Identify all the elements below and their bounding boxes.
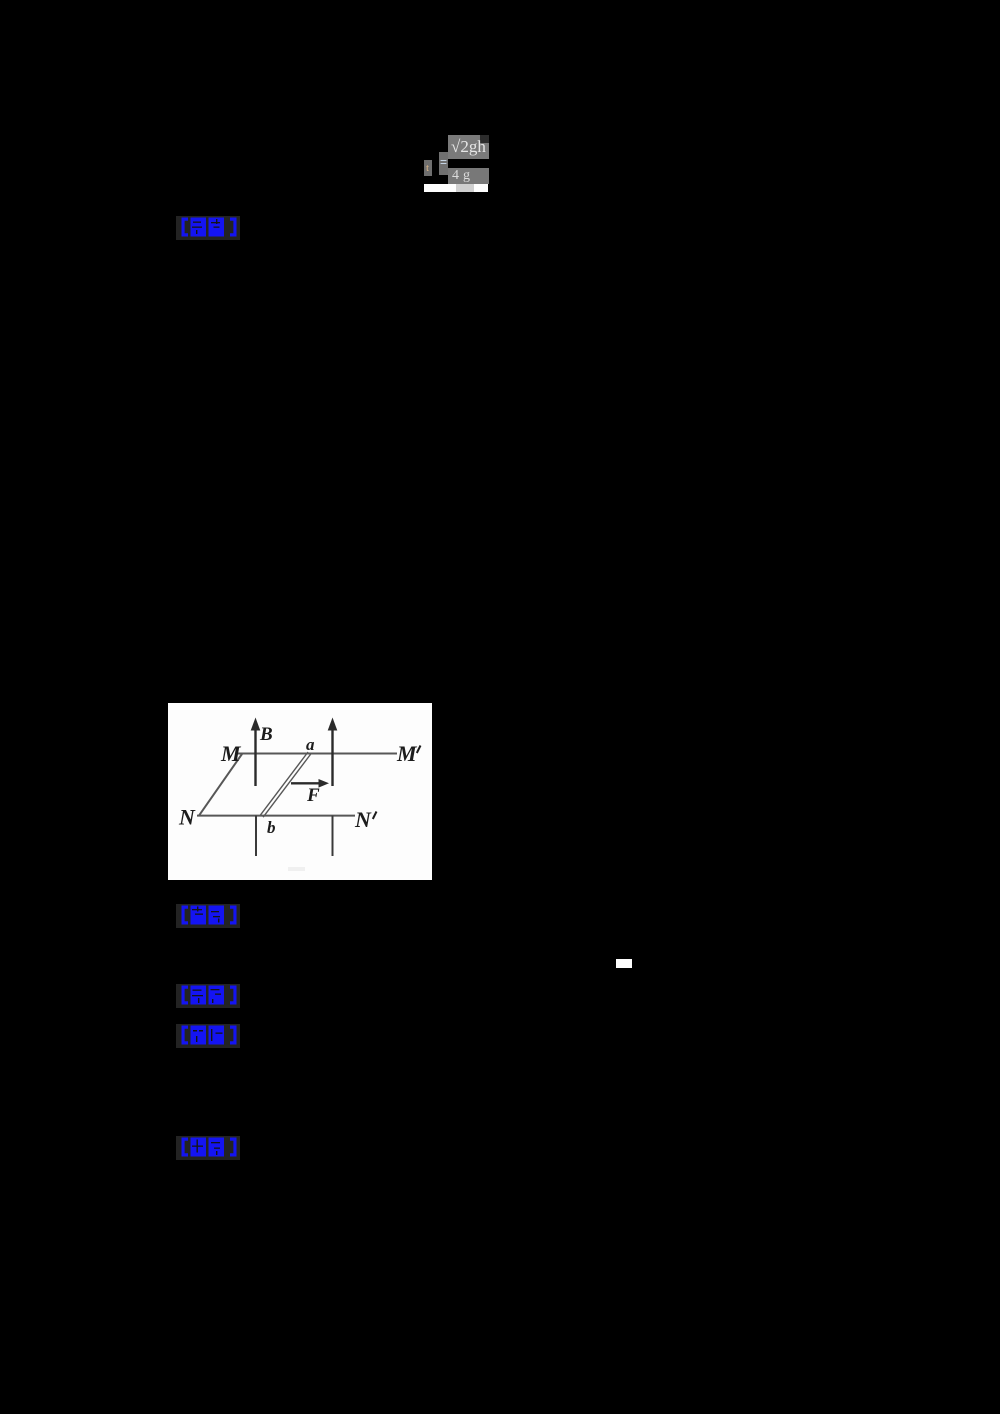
svg-text:M: M — [220, 741, 242, 766]
numerator block sqrt(2gh) — [448, 135, 489, 159]
svg-text:F: F — [306, 785, 320, 806]
field line stub lower right — [332, 816, 334, 856]
rail MM' — [238, 753, 397, 755]
svg-text:B: B — [259, 724, 273, 745]
field line stub lower left — [255, 816, 257, 856]
small white formula fragment — [616, 959, 632, 968]
formula image block (equation t = sqrt(2gh)/4g) — [424, 130, 490, 194]
equals sign block — [439, 152, 448, 175]
white base strip of formula image — [424, 184, 488, 192]
marker 【考点】 — [176, 904, 240, 928]
force arrow F — [291, 782, 321, 784]
svg-text:a: a — [306, 735, 315, 754]
marker 【解答】 — [176, 1136, 240, 1160]
left side wire M to N — [199, 754, 242, 816]
denominator block 4g — [448, 168, 489, 184]
svg-text:N: N — [354, 807, 372, 832]
rail NN' — [197, 815, 355, 817]
formula subscript block — [424, 160, 432, 176]
marker 【分析】 — [176, 1024, 240, 1048]
svg-text:N: N — [178, 805, 196, 830]
svg-text:b: b — [267, 818, 276, 837]
B field arrow left — [254, 727, 256, 786]
faint artifact dash — [288, 867, 305, 871]
marker 【点评】 — [176, 216, 240, 240]
B field arrow right — [331, 727, 333, 786]
physics diagram white panel — [168, 703, 432, 880]
marker 【专题】 — [176, 984, 240, 1008]
svg-text:M: M — [396, 741, 418, 766]
rod ab (double line) — [260, 752, 308, 815]
